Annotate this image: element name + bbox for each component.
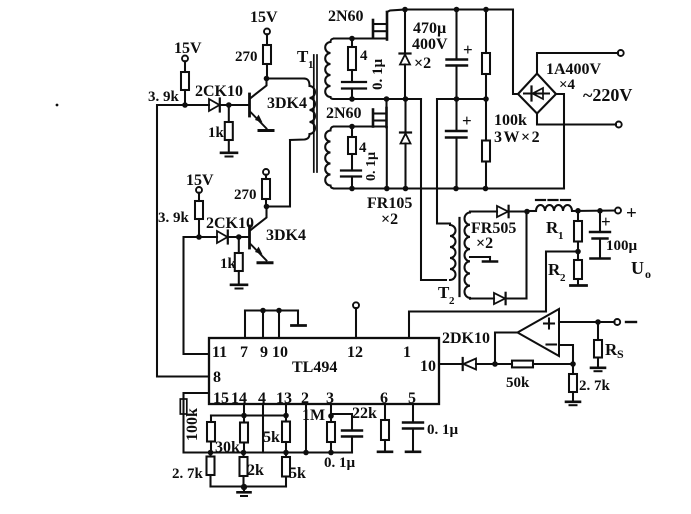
svg-text:+: + (463, 40, 473, 59)
ground (T2 center tap) (483, 257, 497, 262)
svg-text:13: 13 (276, 390, 292, 407)
node terminal (lower 270) (263, 169, 269, 175)
wire T2 primary lead 2 (from mid rail right) (437, 99, 450, 224)
transformer T2 primary winding (450, 224, 456, 281)
ground (under Rs) (591, 368, 605, 371)
svg-text:0. 1µ: 0. 1µ (364, 152, 379, 181)
diode 2CK10 (upper) (195, 83, 243, 112)
node terminal AC2 (616, 122, 622, 128)
diode FR105 no.1 (400, 10, 411, 100)
node output junctions (575, 208, 603, 214)
transformer T2 core (458, 218, 460, 296)
svg-text:2N60: 2N60 (328, 8, 364, 25)
wire source line (upper) (334, 37, 387, 39)
svg-text:10: 10 (420, 358, 436, 375)
wire collector to T1 primary (267, 77, 305, 79)
wire mid rail left segment (337, 98, 421, 100)
wire top rail (405, 10, 518, 95)
label Uo (631, 258, 651, 281)
wire top bus pins 14 13 (211, 414, 286, 416)
resistor 2k (bottom) (240, 453, 265, 487)
svg-text:12: 12 (347, 344, 363, 361)
wire source down to bottom rail (386, 127, 388, 189)
wire diode to base (220, 104, 250, 106)
node collector junction (lower) (264, 204, 270, 210)
node 15V terminal (upper driver) (174, 40, 202, 62)
wire bottom rail (334, 187, 564, 189)
T1 primary winding (290, 79, 315, 141)
wire to pin8: node A left and down (157, 105, 209, 377)
node op-amp output junction (492, 361, 498, 367)
ground (tie bar) (292, 311, 306, 326)
node junction 50k right (570, 361, 576, 367)
wire T2 primary lead 1 (from mid rail left) (421, 99, 446, 280)
inductor L1 (output choke) (527, 200, 572, 211)
resistor 1M (pin 3) (327, 404, 335, 453)
svg-text:2: 2 (449, 295, 455, 307)
speck (56, 104, 59, 107)
MOSFET 2N60 (upper) (328, 8, 405, 40)
node 15V terminal (lower driver) (186, 172, 214, 193)
svg-text:3DK4: 3DK4 (266, 227, 306, 244)
wire op-amp minus input (559, 345, 573, 364)
wire mid rail right segment (437, 98, 487, 100)
transistor Q2 3DK4 (lower) (250, 207, 307, 261)
svg-text:1M: 1M (302, 407, 325, 424)
capacitor 470u no.1 (447, 10, 473, 100)
svg-text:FR105: FR105 (367, 195, 412, 212)
svg-text:5k: 5k (263, 429, 280, 446)
diode 2DK10 (442, 330, 512, 370)
wire op-amp plus input to minus terminal (559, 321, 615, 323)
wire (184, 61, 186, 72)
transformer T2 secondary winding (465, 212, 470, 299)
svg-text:2: 2 (560, 272, 566, 284)
wire op-amp output (495, 333, 518, 365)
node collector junction (upper) (264, 76, 270, 82)
capacitor 470u no.2 (446, 99, 472, 189)
svg-text:+: + (601, 212, 611, 231)
diode 2CK10 (lower) (206, 215, 254, 244)
svg-text:270: 270 (234, 187, 257, 203)
resistor Rs (594, 322, 624, 368)
capacitor 0.1u (pin 5) (403, 404, 459, 452)
ground (under 22k) (378, 450, 392, 453)
resistor 5k (pin 13) (263, 404, 290, 453)
wire node B to diode (199, 236, 217, 238)
diode FR105 no.2 (400, 99, 411, 189)
resistor 4 (upper snubber) (348, 39, 368, 71)
resistor 4 (lower snubber) (348, 127, 367, 157)
svg-text:7: 7 (240, 344, 248, 361)
svg-text:3DK4: 3DK4 (267, 95, 307, 112)
resistor 270 (upper) (235, 45, 271, 65)
svg-text:5k: 5k (289, 465, 306, 482)
wire feedback divider to pin 1 (409, 252, 578, 339)
transistor Q1 3DK4 (upper) (250, 79, 308, 129)
node bottom rail junctions (349, 186, 488, 192)
svg-text:1k: 1k (220, 256, 237, 272)
op-amp U1 TL494 (209, 338, 439, 404)
resistor 100k 3W no.1 (482, 10, 490, 100)
resistor 100k 3W no.2 (482, 99, 490, 189)
node terminal pin 12 (353, 302, 359, 308)
wire bridge minus to bottom rail (556, 94, 564, 189)
svg-text:+: + (462, 111, 472, 130)
T1 core (314, 55, 317, 172)
node A junction (182, 102, 188, 108)
ground (under R2) (571, 284, 587, 287)
wire to pin11: node B left and down (184, 237, 210, 354)
label 100k 3Wx2 (494, 112, 541, 146)
svg-text:1k: 1k (208, 125, 225, 141)
resistor 2.7k (op-amp) (569, 364, 611, 402)
MOSFET 2N60 (lower) (326, 99, 387, 127)
node A2 junction (226, 102, 232, 108)
svg-text:3. 9k: 3. 9k (158, 210, 190, 226)
svg-text:U: U (631, 258, 644, 278)
label 470u 400V x2 (412, 20, 448, 72)
wire ground bus (211, 485, 287, 487)
ground (under 2.7k) (566, 402, 580, 405)
wire (265, 175, 267, 179)
wire (266, 34, 268, 45)
label FR105 x2 (367, 195, 412, 228)
wire T2 secondary top lead (470, 210, 497, 212)
wire bottom bus (211, 451, 353, 453)
resistor 270 (lower) (234, 179, 270, 203)
resistor 1k (upper) (208, 105, 233, 152)
node terminal output plus (615, 203, 637, 224)
node snubber2 top junction (349, 124, 355, 130)
svg-text:2k: 2k (247, 462, 264, 479)
T1 secondary 2 winding (325, 127, 340, 189)
ground (under pin5 cap) (406, 450, 420, 453)
svg-text:22k: 22k (352, 405, 377, 422)
svg-text:15V: 15V (250, 9, 278, 26)
wire pin 12 (355, 308, 357, 338)
node top rail junctions (402, 7, 489, 13)
wire T2 center tap (470, 256, 490, 258)
svg-text:0. 1µ: 0. 1µ (324, 455, 356, 471)
svg-text:×2: ×2 (381, 211, 398, 228)
svg-text:+: + (626, 203, 637, 224)
T1 secondary 1 winding (325, 39, 340, 100)
label FR505 x2 (471, 220, 516, 252)
resistor 2.7k (bottom) (172, 453, 215, 487)
resistor 5k (bottom) (282, 453, 306, 487)
node B junction (196, 234, 202, 240)
wire (265, 199, 267, 207)
svg-text:TL494: TL494 (292, 359, 337, 376)
resistor 30k (pin 14) (215, 404, 248, 456)
svg-text:10: 10 (272, 344, 288, 361)
svg-text:8: 8 (213, 369, 221, 386)
wire (184, 90, 186, 105)
node junction (349, 96, 355, 102)
node top bus junctions (241, 413, 289, 419)
svg-text:2. 7k: 2. 7k (172, 466, 204, 482)
resistor 22k (pin 6) (352, 404, 389, 452)
svg-text:3. 9k: 3. 9k (148, 89, 180, 105)
svg-text:100k: 100k (184, 408, 201, 441)
svg-text:1: 1 (403, 344, 411, 361)
svg-text:2N60: 2N60 (326, 105, 362, 122)
transformer T1 label (297, 47, 314, 71)
node junction (595, 319, 601, 325)
svg-text:15V: 15V (174, 40, 202, 57)
svg-text:1: 1 (558, 230, 564, 242)
svg-text:3W×2: 3W×2 (494, 129, 541, 146)
wire (198, 193, 200, 201)
resistor 3.9k (upper) (148, 72, 189, 105)
wire pin 4 down (262, 404, 264, 453)
node pin 3 junctions (328, 413, 334, 455)
transformer T2 label (438, 283, 455, 307)
resistor 3.9k (lower) (158, 201, 203, 226)
node mid rail junctions (384, 96, 489, 102)
capacitor 0.1u (pin 3) (324, 414, 362, 471)
svg-text:1A400V: 1A400V (546, 61, 602, 78)
wire bridge AC bottom to terminal (537, 114, 616, 125)
node terminal AC1 (618, 50, 624, 56)
wire T1 primary bottom to lower collector (267, 140, 291, 207)
svg-text:1: 1 (308, 59, 314, 71)
resistor 100k (timing) (180, 393, 209, 453)
resistor 1k (lower) (220, 237, 243, 284)
node bottom bus junctions (208, 450, 309, 456)
svg-text:270: 270 (235, 49, 258, 65)
resistor column A (left of 30k) (207, 416, 215, 453)
svg-text:o: o (645, 267, 651, 281)
node R1 R2 junction (575, 249, 581, 255)
ground (emitter Q2) (258, 261, 272, 264)
diode FR505 no.1 (497, 206, 527, 217)
svg-text:50k: 50k (506, 375, 530, 391)
wire output rail (572, 209, 615, 212)
ground (emitter Q1) (259, 129, 273, 132)
wire node A to diode (185, 104, 209, 106)
capacitor 0.1u (lower snubber) (341, 152, 379, 189)
wire diode to base (228, 236, 250, 238)
wire T2 secondary bottom lead (470, 297, 494, 299)
resistor 50k (506, 361, 573, 391)
wire (266, 64, 268, 79)
wire gate line (lower) (334, 125, 387, 127)
svg-text:2DK10: 2DK10 (442, 330, 490, 347)
diode FR505 no.2 (494, 293, 527, 304)
node terminal output minus (614, 319, 636, 325)
svg-text:15: 15 (213, 390, 229, 407)
node B2 junction (236, 234, 242, 240)
resistor R1 (546, 211, 582, 252)
svg-text:×2: ×2 (476, 235, 493, 252)
wire bridge AC top to terminal (537, 53, 618, 74)
svg-text:15V: 15V (186, 172, 214, 189)
wire pin 2 down (305, 404, 307, 453)
bridge rectifier 1A400V x4 (518, 61, 602, 114)
svg-text:0. 1µ: 0. 1µ (370, 59, 386, 91)
wire pin 10 line (439, 363, 463, 365)
svg-text:100µ: 100µ (606, 238, 638, 254)
svg-text:470µ: 470µ (413, 20, 446, 37)
svg-text:4: 4 (360, 48, 368, 64)
svg-text:2. 7k: 2. 7k (579, 378, 611, 394)
wire pins 7 9 10 tie bar (245, 311, 298, 339)
op-amp U2 (518, 309, 560, 356)
node tie bar junctions (260, 308, 282, 314)
svg-text:~220V: ~220V (583, 85, 632, 105)
node 15V terminal (upper 270) (250, 9, 278, 35)
wire (198, 219, 200, 237)
resistor R2 (548, 252, 582, 286)
capacitor 100u (590, 211, 638, 259)
capacitor 0.1u (upper snubber) (342, 59, 386, 100)
svg-text:S: S (617, 347, 624, 361)
svg-text:9: 9 (260, 344, 268, 361)
ground (bottom bus) (238, 484, 251, 496)
svg-text:0. 1µ: 0. 1µ (427, 422, 459, 438)
svg-text:11: 11 (212, 344, 227, 361)
node rectified output junction (524, 209, 530, 215)
ground (under 1k upper) (221, 153, 237, 157)
svg-text:400V: 400V (412, 36, 448, 53)
svg-text:×2: ×2 (414, 55, 431, 72)
svg-text:2CK10: 2CK10 (195, 83, 243, 100)
svg-text:2CK10: 2CK10 (206, 215, 254, 232)
svg-text:×4: ×4 (559, 77, 576, 93)
wire diode 2 up to output node (525, 212, 527, 299)
svg-text:100k: 100k (494, 112, 527, 129)
node snubber1 top junction (349, 36, 355, 42)
ground (under 1k lower) (231, 285, 247, 289)
